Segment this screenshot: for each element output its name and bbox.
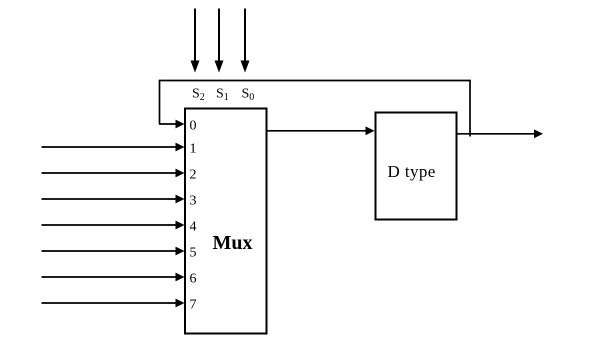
select input arrow S1 (top, middle)	[215, 9, 224, 73]
wire: feedback left vertical down to Mux input 0	[159, 80, 161, 124]
svg-text:Mux: Mux	[213, 232, 253, 254]
wire: feedback into Mux input 0 (arrow)	[159, 120, 185, 129]
multiplexer U1 (Mux box)	[185, 109, 267, 334]
data input wire 6 (arrow)	[42, 273, 185, 282]
wire: D-type output to external (arrow)	[457, 129, 544, 138]
data input wire 4 (arrow)	[42, 221, 185, 230]
select input arrow S2 (top, leftmost)	[191, 9, 200, 73]
data input wire 7 (arrow)	[42, 299, 185, 308]
data input wire 2 (arrow)	[42, 169, 185, 178]
wire: feedback right vertical from D-type output node down	[469, 80, 471, 137]
svg-text:0: 0	[190, 119, 197, 134]
data input wire 5 (arrow)	[42, 247, 185, 256]
select input arrow S0 (top, rightmost)	[241, 9, 250, 73]
data input wire 3 (arrow)	[42, 195, 185, 204]
wire: Mux output to D-type input (arrow)	[267, 126, 375, 135]
wire: feedback top horizontal from node A to node B	[160, 80, 471, 82]
svg-text:D type: D type	[388, 162, 436, 181]
svg-text:4: 4	[190, 220, 197, 235]
svg-text:1: 1	[190, 142, 197, 157]
flip-flop U2 (D type box)	[376, 113, 457, 220]
data input wire 1 (arrow)	[42, 143, 185, 152]
svg-text:2: 2	[190, 168, 197, 183]
svg-text:7: 7	[190, 298, 197, 313]
svg-text:6: 6	[190, 272, 197, 287]
svg-text:3: 3	[190, 194, 197, 209]
svg-text:5: 5	[190, 246, 197, 261]
